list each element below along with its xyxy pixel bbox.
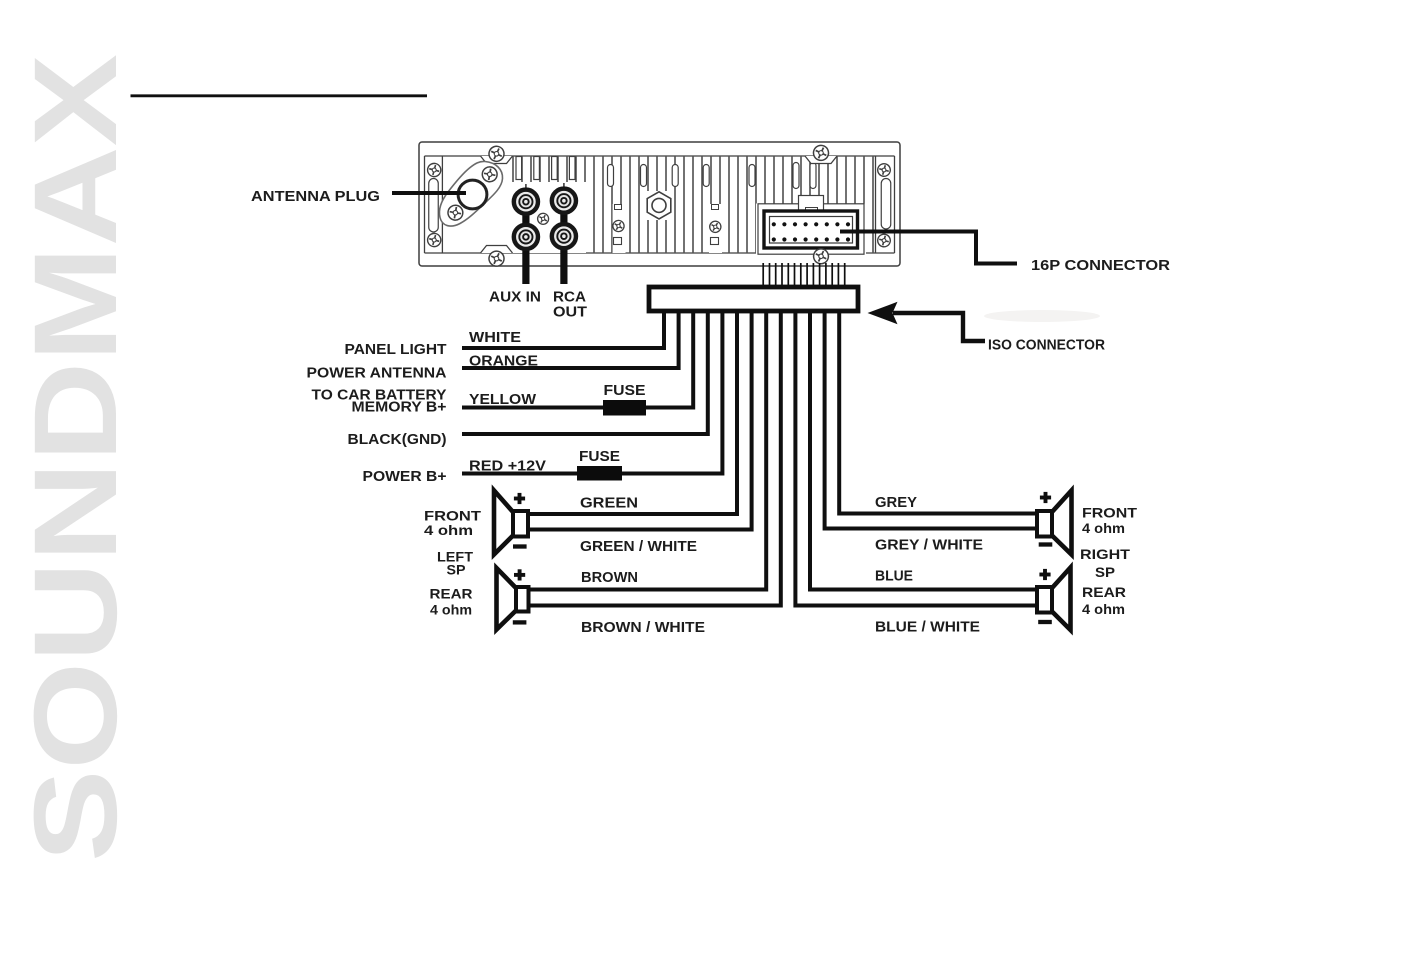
svg-text:4 ohm: 4 ohm xyxy=(1082,520,1125,536)
svg-text:ORANGE: ORANGE xyxy=(469,354,538,370)
svg-text:YELLOW: YELLOW xyxy=(469,392,536,408)
svg-text:BLUE: BLUE xyxy=(875,569,913,585)
svg-text:BLUE / WHITE: BLUE / WHITE xyxy=(875,620,980,636)
svg-text:POWER B+: POWER B+ xyxy=(363,469,447,485)
svg-text:REAR: REAR xyxy=(430,586,473,602)
svg-text:4 ohm: 4 ohm xyxy=(430,602,472,618)
svg-text:ISO CONNECTOR: ISO CONNECTOR xyxy=(988,338,1105,354)
svg-text:BROWN: BROWN xyxy=(581,570,638,586)
svg-text:BROWN / WHITE: BROWN / WHITE xyxy=(581,620,705,636)
svg-text:MEMORY B+: MEMORY B+ xyxy=(352,400,447,416)
svg-text:FUSE: FUSE xyxy=(604,383,646,399)
svg-text:SP: SP xyxy=(447,562,466,578)
svg-text:SP: SP xyxy=(1095,564,1115,580)
svg-text:16P CONNECTOR: 16P CONNECTOR xyxy=(1031,258,1171,274)
svg-text:REAR: REAR xyxy=(1082,584,1126,600)
svg-text:OUT: OUT xyxy=(553,305,587,321)
svg-text:4 ohm: 4 ohm xyxy=(1082,601,1125,617)
svg-text:FUSE: FUSE xyxy=(579,449,620,465)
svg-text:GREY / WHITE: GREY / WHITE xyxy=(875,538,983,554)
svg-text:4 ohm: 4 ohm xyxy=(424,522,473,538)
svg-text:AUX IN: AUX IN xyxy=(489,290,541,306)
svg-text:FRONT: FRONT xyxy=(1082,505,1138,521)
svg-text:GREY: GREY xyxy=(875,495,917,511)
svg-text:WHITE: WHITE xyxy=(469,330,521,346)
svg-text:SOUNDMAX: SOUNDMAX xyxy=(10,54,142,862)
svg-text:GREEN: GREEN xyxy=(580,496,638,512)
svg-text:POWER ANTENNA: POWER ANTENNA xyxy=(307,366,448,382)
svg-text:GREEN / WHITE: GREEN / WHITE xyxy=(580,539,697,555)
svg-text:ANTENNA PLUG: ANTENNA PLUG xyxy=(251,189,380,205)
svg-text:BLACK(GND): BLACK(GND) xyxy=(348,432,447,448)
svg-text:PANEL LIGHT: PANEL LIGHT xyxy=(345,342,447,358)
svg-text:RED +12V: RED +12V xyxy=(469,459,546,475)
svg-text:RIGHT: RIGHT xyxy=(1080,546,1131,562)
svg-text:RCA: RCA xyxy=(553,290,587,306)
